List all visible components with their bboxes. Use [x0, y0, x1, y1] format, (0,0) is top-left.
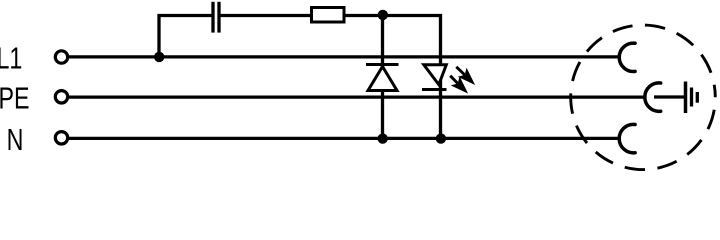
svg-text:L1: L1 — [0, 40, 22, 75]
svg-text:PE: PE — [0, 80, 30, 115]
svg-text:N: N — [7, 122, 24, 157]
